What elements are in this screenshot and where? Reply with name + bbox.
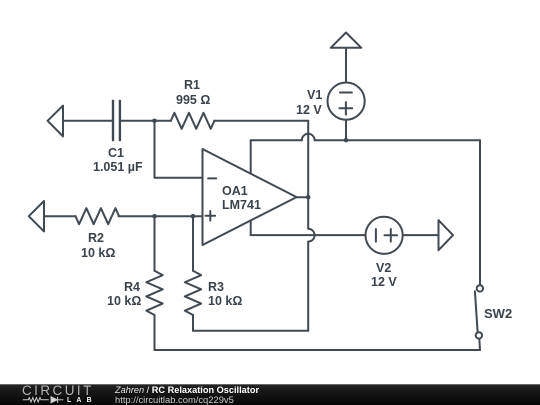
wire op-amp V+ pin	[250, 140, 252, 173]
node R3 junction dot	[191, 214, 196, 219]
wire R4 top lead	[154, 216, 156, 271]
footer url	[115, 395, 234, 404]
wire right rail down to SW2	[479, 140, 481, 284]
wire R1 to feedback corner	[214, 120, 308, 122]
label R1 value	[176, 94, 210, 107]
capacitor C1	[113, 101, 120, 140]
voltage source V1	[328, 83, 365, 141]
logo LAB text	[67, 398, 97, 405]
label SW2	[484, 307, 512, 320]
wire V+ rail right of hop	[315, 139, 480, 141]
wire bottom rail	[155, 349, 481, 351]
footer title	[115, 386, 259, 395]
label V1	[307, 89, 322, 102]
label V2 value	[371, 276, 397, 289]
op-amp OA1	[203, 149, 297, 245]
switch SW2	[475, 285, 483, 350]
label R1	[184, 79, 200, 92]
terminal T1 (left, C1 input)	[48, 106, 63, 137]
wire R3 top lead	[192, 216, 194, 271]
terminal T3 (right, output)	[439, 220, 454, 250]
wire hop (V+ rail over feedback)	[302, 134, 315, 140]
label V1 value	[296, 104, 322, 117]
wire V+ rail left of hop	[251, 139, 302, 141]
label C1 value	[93, 161, 143, 174]
label C1	[108, 147, 124, 160]
label R4 value	[107, 295, 141, 308]
wire hop (feedback over V2 rail)	[308, 229, 314, 242]
node R4 junction dot	[152, 214, 157, 219]
voltage source V2	[366, 217, 439, 254]
terminal T2 (left, R2 input)	[29, 201, 44, 231]
wire C1 to node A	[121, 120, 171, 122]
resistor R3	[185, 271, 201, 315]
wire feedback vertical upper	[307, 121, 309, 229]
node V1 junction dot	[344, 138, 349, 143]
resistor R4	[146, 271, 162, 315]
wire V- rail to V2	[251, 234, 365, 236]
label R4	[124, 281, 140, 294]
logo glyph resistor-diode	[23, 397, 64, 403]
resistor R1	[171, 113, 215, 129]
wire R3 bottom to feedback	[193, 330, 308, 332]
node output junction dot	[306, 195, 311, 200]
label R3	[208, 281, 224, 294]
label LM741	[222, 199, 261, 212]
power VCC symbol	[331, 33, 362, 83]
wire node A down to inverting input	[155, 121, 203, 178]
label OA1	[222, 185, 248, 198]
node A junction dot	[152, 119, 157, 124]
wire op-amp V- pin	[250, 221, 252, 235]
resistor R2	[76, 208, 120, 224]
wire T2 to R2	[44, 215, 76, 217]
label R2 value	[81, 247, 115, 260]
wire op-amp output stub	[297, 196, 309, 198]
label R3 value	[208, 295, 242, 308]
wire R2 to non-inverting input	[119, 215, 203, 217]
label V2	[376, 262, 391, 275]
label R2	[88, 232, 104, 245]
wire T1 to C1	[63, 120, 112, 122]
wire R4 bottom lead	[154, 315, 156, 350]
wire feedback vertical lower	[307, 242, 309, 331]
wire R3 bottom lead	[192, 315, 194, 331]
logo CIRCUIT text	[22, 384, 94, 397]
